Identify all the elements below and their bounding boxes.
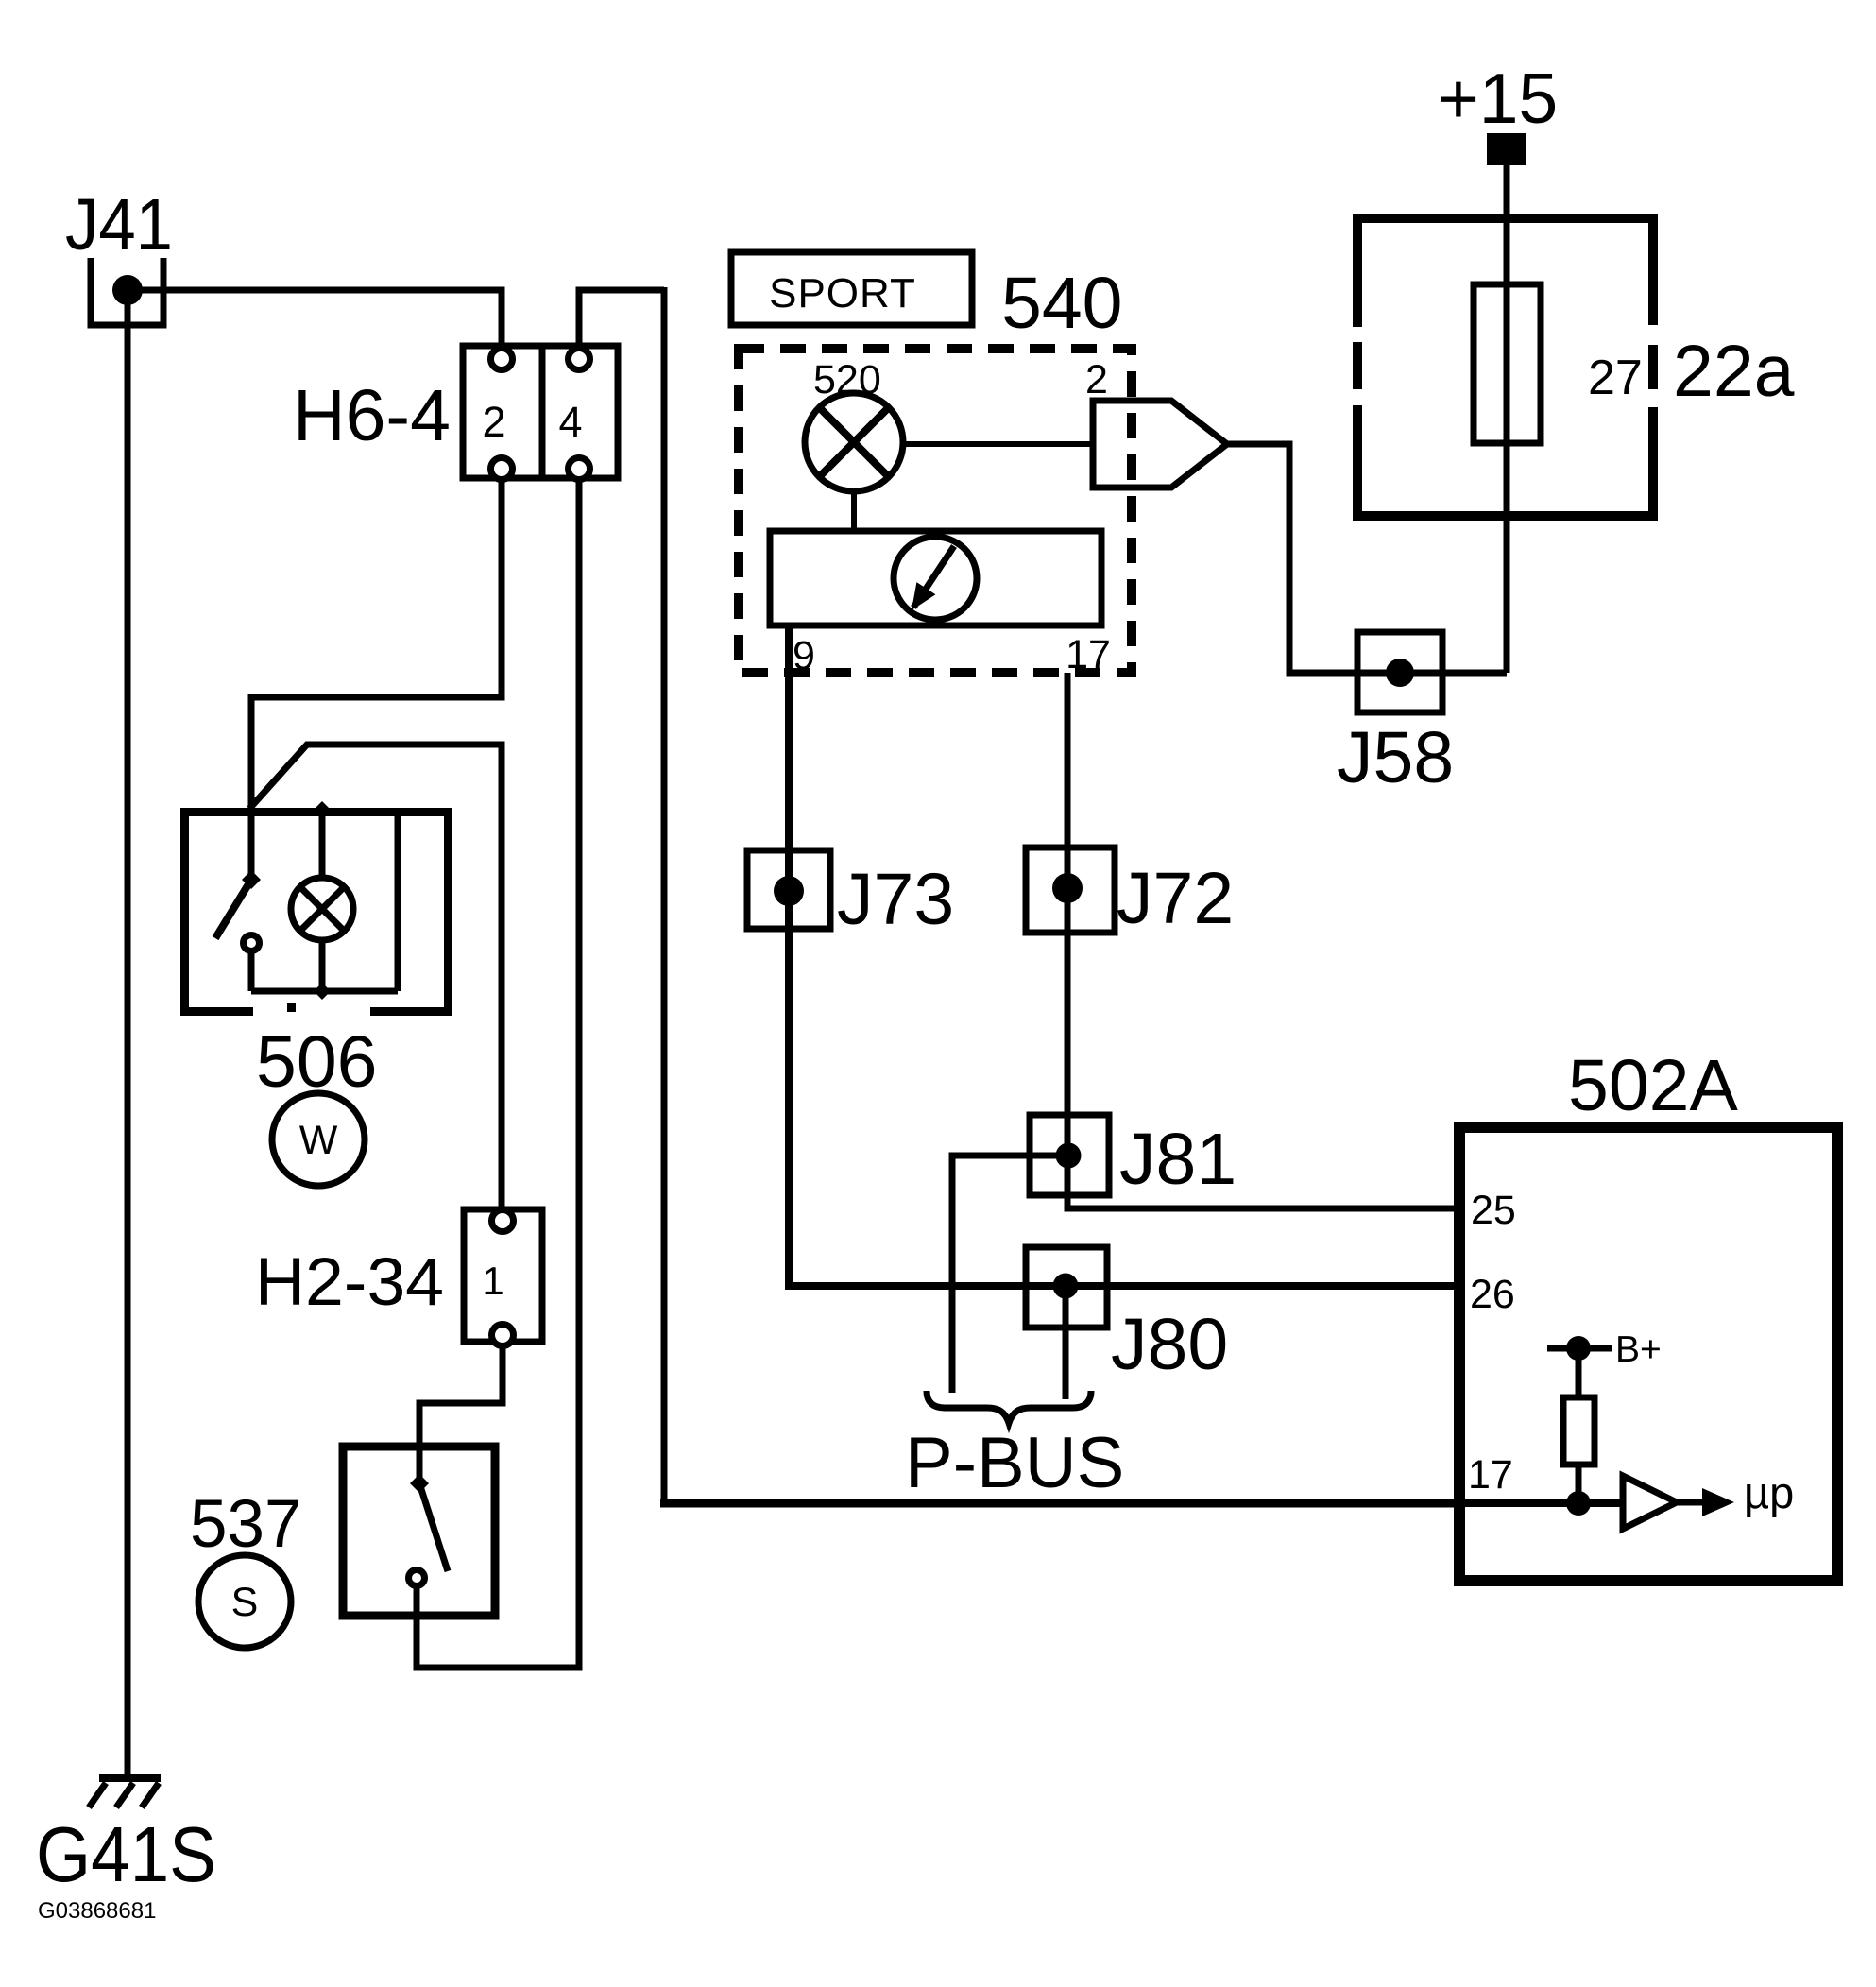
- wire lamp 520 to pin 2: [903, 441, 1093, 447]
- svg-text:22a: 22a: [1673, 331, 1795, 412]
- gauge symbol: [894, 537, 977, 620]
- B+ rail: [1547, 1345, 1612, 1352]
- wire J80 to P-BUS: [1063, 1286, 1069, 1399]
- switch contact diamond in 506: [242, 870, 261, 889]
- svg-text:H2-34: H2-34: [255, 1245, 444, 1320]
- svg-text:+15: +15: [1438, 59, 1558, 138]
- svg-text:27: 27: [1588, 351, 1643, 405]
- wire switch 537 to H6-4 pin 4: [417, 476, 579, 1668]
- svg-text:J72: J72: [1117, 858, 1234, 939]
- svg-text:17: 17: [1468, 1452, 1513, 1498]
- svg-text:9: 9: [793, 633, 815, 678]
- wire +15 through fuse to J58: [1504, 165, 1510, 673]
- inner vertical 506: [395, 814, 401, 991]
- svg-text:SPORT: SPORT: [769, 270, 916, 317]
- junction box J58: [1357, 632, 1442, 712]
- gauge box 540: [770, 531, 1101, 625]
- svg-text:J58: J58: [1337, 717, 1454, 798]
- connector H6-4: [463, 346, 618, 478]
- module 540 dashed box: [739, 349, 1132, 673]
- wire bottom run to 502A pin 17: [660, 1499, 1462, 1508]
- svg-text:2: 2: [1085, 357, 1108, 403]
- switch open contact in 506: [244, 935, 260, 951]
- svg-text:B+: B+: [1615, 1329, 1662, 1370]
- brace P-BUS: [927, 1391, 1091, 1423]
- wire J41 to ground G41S: [125, 290, 131, 1775]
- svg-text:2: 2: [482, 398, 505, 446]
- wire lamp top 506: [319, 810, 326, 881]
- ECU 502A box: [1459, 1127, 1837, 1581]
- wire 540 pin 9 to J73 to 502A pin 26: [789, 625, 1462, 1286]
- connector pin 2 pentagon: [1093, 401, 1227, 488]
- svg-text:J73: J73: [837, 859, 954, 940]
- wire lamp unit 506 to H2-34 pin 1: [249, 745, 502, 1214]
- wire open contact to bottom rail 506: [248, 951, 255, 991]
- wire H2-34 pin 1 to switch 537: [419, 1342, 503, 1478]
- svg-text:537: 537: [190, 1487, 301, 1562]
- svg-text:S: S: [231, 1580, 259, 1625]
- wire pentagon to J58 to fuse: [1227, 444, 1507, 673]
- lamp 520: [805, 393, 903, 491]
- wire buffer to microprocessor: [1677, 1499, 1706, 1506]
- switch lever 537: [419, 1483, 448, 1571]
- node J81: [1056, 1143, 1082, 1169]
- node lamp bottom 506: [314, 983, 331, 1000]
- svg-text:G03868681: G03868681: [38, 1898, 156, 1924]
- bottom rail 506: [251, 988, 398, 995]
- wire 540 pin 17 to J72 to J81 to 502A pin 25: [1067, 673, 1462, 1208]
- node pin 17: [1566, 1491, 1591, 1516]
- SPORT box: [731, 252, 972, 325]
- node J80: [1053, 1274, 1079, 1299]
- svg-text:26: 26: [1470, 1272, 1515, 1317]
- switch 537 box: [343, 1447, 495, 1616]
- switch open contact 537: [409, 1570, 425, 1586]
- svg-text:25: 25: [1471, 1188, 1516, 1233]
- wire H6-4 pin2 to lamp unit 506: [251, 469, 502, 880]
- node J72: [1052, 873, 1083, 903]
- resistor: [1576, 1348, 1582, 1397]
- svg-text:4: 4: [558, 398, 582, 446]
- wire lamp bottom 506: [319, 940, 326, 991]
- ground G41S: [99, 1774, 161, 1782]
- wire long vertical to 502A pin 17: [661, 287, 668, 1503]
- junction box J72: [1026, 848, 1115, 933]
- node J58: [1386, 659, 1414, 687]
- lamp bulb 506: [291, 878, 353, 940]
- lamp unit 506 box: [185, 813, 449, 1012]
- svg-text:µp: µp: [1744, 1467, 1794, 1517]
- connector J41: [91, 258, 163, 325]
- wire J81 to P-BUS: [952, 1156, 1068, 1393]
- svg-text:502A: 502A: [1568, 1045, 1738, 1126]
- svg-text:G41S: G41S: [36, 1810, 216, 1898]
- svg-text:1: 1: [482, 1259, 503, 1303]
- junction box J80: [1026, 1247, 1107, 1328]
- junction box J81: [1030, 1115, 1109, 1195]
- wire pin 17 to buffer: [1465, 1499, 1623, 1507]
- switch contact diamond 537: [410, 1474, 429, 1493]
- svg-text:H6-4: H6-4: [293, 375, 451, 456]
- svg-text:J81: J81: [1119, 1119, 1236, 1200]
- indicator S: [198, 1555, 291, 1648]
- connector H2-34: [464, 1209, 542, 1342]
- buffer amplifier: [1623, 1476, 1677, 1529]
- node lamp top 506: [314, 801, 331, 818]
- svg-text:P-BUS: P-BUS: [905, 1423, 1124, 1503]
- node J41: [112, 275, 143, 305]
- junction box J73: [747, 850, 830, 929]
- switch lever in 506: [215, 880, 251, 938]
- wire lamp 520 to gauge: [851, 491, 857, 531]
- svg-text:540: 540: [1001, 263, 1122, 344]
- svg-text:17: 17: [1066, 632, 1111, 677]
- svg-text:J80: J80: [1111, 1304, 1228, 1385]
- node J73: [774, 876, 804, 906]
- wire H6-4 pin 4 top run to node: [579, 290, 664, 348]
- wire J41 to H6-4 pin 2: [128, 290, 502, 348]
- svg-text:J41: J41: [65, 184, 173, 266]
- fuse 27: [1474, 284, 1541, 443]
- svg-text:W: W: [299, 1118, 338, 1163]
- fuse holder 22a box: [1353, 218, 1658, 516]
- indicator W: [272, 1093, 365, 1186]
